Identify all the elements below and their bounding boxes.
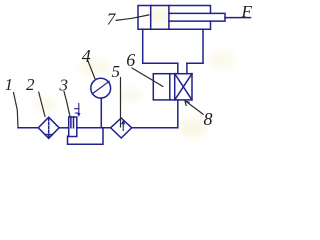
wire: cylinder right port down — [202, 29, 204, 63]
cylinder piston left line — [150, 6, 152, 30]
leader 5 — [120, 78, 122, 128]
wire: main line right segment — [132, 127, 178, 129]
regulator R1 body — [69, 117, 77, 137]
leader 8 — [185, 101, 203, 115]
filter dashed element — [48, 118, 50, 137]
cylinder piston right line — [168, 6, 170, 30]
wire: stub to valve top right port — [186, 63, 188, 73]
lubricator L1 diamond — [111, 118, 132, 138]
leader 8 arrow head — [185, 101, 189, 106]
regulator arrow head — [77, 113, 81, 117]
leader 2 — [39, 92, 45, 117]
regulator inner passage lines — [71, 117, 74, 128]
filter F1 diamond — [38, 117, 59, 138]
svg-text:8: 8 — [204, 109, 213, 129]
leader 6 — [132, 68, 163, 87]
filter bottom chord — [45, 134, 52, 136]
svg-text:5: 5 — [112, 62, 121, 81]
wire: cylinder left port down — [142, 29, 144, 63]
wire: main line left end segment — [18, 127, 38, 129]
svg-text:2: 2 — [26, 75, 35, 94]
force line to F — [225, 17, 251, 19]
lubricator arrow head — [121, 120, 125, 125]
svg-text:3: 3 — [59, 76, 69, 95]
regulator feedback loop — [68, 128, 104, 145]
gauge G1 circle — [91, 78, 111, 98]
svg-text:6: 6 — [126, 50, 135, 70]
valve X (closed position) — [175, 74, 192, 100]
wire: main line through regulator to lubricator — [77, 127, 111, 129]
wire: left manifold horizontal — [143, 62, 178, 64]
valve divider line 1 — [169, 74, 171, 100]
wire: stub to valve top left port — [177, 63, 179, 73]
svg-text:F: F — [241, 2, 253, 21]
leader 7 — [116, 15, 149, 21]
svg-text:7: 7 — [107, 10, 117, 29]
svg-text:1: 1 — [5, 75, 14, 94]
valve divider line 2 — [174, 74, 176, 100]
leader 3 — [64, 92, 70, 117]
lubricator up arrow — [122, 122, 124, 131]
cylinder U1 body — [138, 6, 211, 30]
gauge needle — [92, 81, 109, 94]
leader 1 — [14, 93, 19, 128]
gauge stem — [100, 98, 102, 128]
piston rod — [169, 13, 225, 21]
regulator spring stem — [78, 104, 80, 116]
svg-text:4: 4 — [82, 46, 91, 66]
leader 4 — [88, 61, 95, 79]
wire: right manifold horizontal — [187, 62, 203, 64]
valve V1 body — [153, 74, 192, 100]
wire: valve bottom port down to main line — [177, 100, 179, 128]
regulator spring ticks — [75, 109, 79, 113]
wire: filter to regulator — [59, 127, 69, 129]
